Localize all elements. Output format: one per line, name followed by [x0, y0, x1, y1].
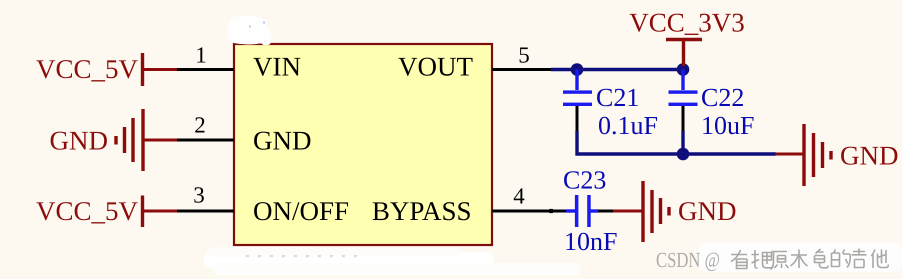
svg-text:GND: GND	[840, 141, 899, 171]
svg-text:1: 1	[195, 43, 207, 68]
pin name ON/OFF	[253, 196, 349, 226]
wire red stub to bottom GND	[613, 210, 644, 213]
svg-text:5: 5	[518, 43, 530, 68]
regulator sheet-symbol body U1	[234, 44, 492, 245]
svg-text:C23: C23	[563, 165, 606, 194]
label C23	[563, 165, 606, 194]
pin number 5	[518, 43, 530, 68]
white erasure strip below symbol (upper)	[204, 247, 493, 268]
pin number 1	[195, 43, 207, 68]
power port VCC_3V3 bar	[666, 40, 702, 67]
svg-text:VIN: VIN	[253, 52, 301, 82]
pin name VOUT	[398, 52, 473, 82]
pin number 3	[193, 183, 205, 208]
junction node C	[677, 148, 690, 161]
power port VCC_5V (bottom) red stub	[143, 196, 178, 228]
色	[815, 249, 829, 268]
的	[832, 250, 851, 268]
label C21	[596, 83, 639, 112]
有	[731, 250, 747, 269]
white erasure strip below symbol (lower)	[213, 255, 580, 276]
white erasure blob above symbol	[227, 16, 271, 46]
value 10nF	[564, 227, 617, 256]
label C22	[701, 83, 744, 112]
svg-text:CSDN @: CSDN @	[656, 248, 720, 272]
wire bottom bus to ground (blue)	[576, 152, 777, 155]
net label VCC_5V (top)	[36, 54, 139, 84]
svg-text:2: 2	[194, 113, 206, 138]
svg-text:3: 3	[193, 183, 205, 208]
capacitor C23	[566, 195, 614, 227]
svg-text:10nF: 10nF	[564, 227, 617, 256]
wire red stub to right GND	[775, 153, 805, 156]
ground symbol GND (left)	[116, 109, 177, 171]
svg-text:GND: GND	[50, 125, 109, 155]
capacitor C22	[669, 70, 698, 155]
net label GND (right mid)	[840, 141, 899, 171]
svg-text:VCC_5V: VCC_5V	[36, 196, 139, 226]
pin 2 wire (GND)	[175, 139, 234, 142]
svg-text:4: 4	[513, 184, 525, 209]
junction node B	[677, 63, 690, 76]
net label GND (left)	[50, 125, 109, 155]
wire node A to node B (blue)	[551, 68, 683, 71]
svg-text:C21: C21	[596, 83, 639, 112]
pin number 4	[513, 184, 525, 209]
value 10uF	[701, 111, 754, 140]
pin 4 wire (BYPASS)	[492, 209, 568, 213]
svg-text:VCC_3V3: VCC_3V3	[629, 8, 745, 38]
pin number 2	[194, 113, 206, 138]
把	[752, 250, 774, 268]
white patch behind watermark	[698, 243, 902, 272]
pin 5 wire (VOUT)	[492, 68, 552, 71]
value 0.1uF	[598, 111, 658, 140]
svg-text:C22: C22	[701, 83, 744, 112]
net label GND (bottom right)	[678, 196, 737, 226]
svg-text:10uF: 10uF	[701, 111, 754, 140]
木	[791, 250, 808, 269]
pin 1 wire (VCC_5V to VIN)	[175, 68, 234, 71]
svg-text:ON/OFF: ON/OFF	[253, 196, 349, 226]
pin 3 wire (VCC_5V to ON/OFF)	[175, 210, 234, 213]
net label VCC_5V (bottom)	[36, 196, 139, 226]
pin name BYPASS	[372, 196, 472, 226]
svg-text:VCC_5V: VCC_5V	[36, 54, 139, 84]
net label VCC_3V3	[629, 8, 745, 38]
他	[871, 250, 888, 269]
svg-text:0.1uF: 0.1uF	[598, 111, 658, 140]
pin name GND	[253, 126, 312, 156]
svg-text:GND: GND	[253, 126, 312, 156]
svg-text:GND: GND	[678, 196, 737, 226]
吉	[852, 249, 867, 268]
ground symbol GND (right, mid)	[804, 124, 831, 186]
capacitor C21	[563, 70, 592, 156]
svg-text:VOUT: VOUT	[398, 52, 473, 82]
pin name VIN	[253, 52, 301, 82]
power port VCC_5V (top) red stub	[143, 53, 178, 86]
junction node A	[571, 63, 584, 76]
原	[771, 252, 789, 270]
svg-text:BYPASS: BYPASS	[372, 196, 472, 226]
ground symbol GND (bottom right)	[643, 181, 669, 242]
watermark CSDN @...	[656, 248, 888, 272]
